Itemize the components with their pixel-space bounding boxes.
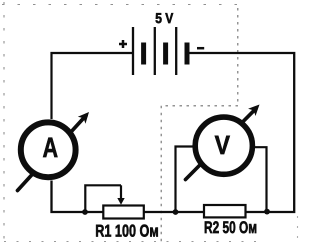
svg-text:R2 50 Ом: R2 50 Ом [204,218,257,237]
svg-text:V: V [215,130,231,160]
svg-text:R1 100 Ом: R1 100 Ом [95,222,159,241]
svg-text:A: A [43,132,59,163]
svg-text:5 V: 5 V [155,11,173,27]
